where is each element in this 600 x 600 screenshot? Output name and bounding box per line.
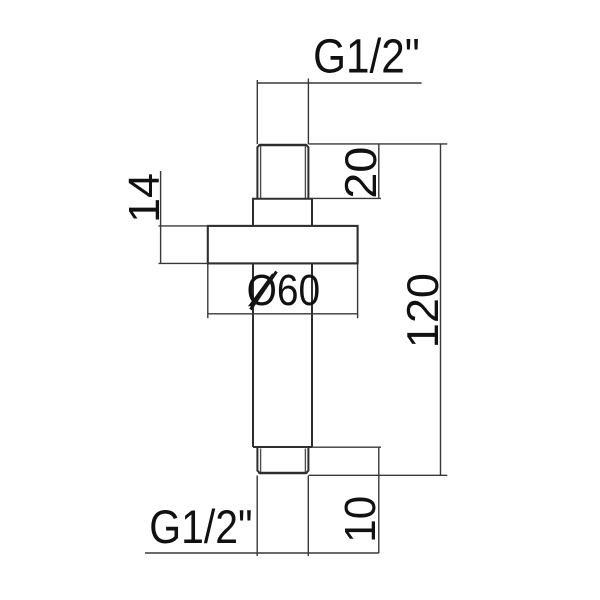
bottom thread outer profile [257,448,308,473]
pipe right edge [311,263,313,447]
dimension 10: dimension line [378,447,380,553]
collar below top thread [253,199,312,226]
pipe left edge [252,263,254,447]
dimension G1/2 bottom: left extension line [256,476,258,557]
dimension G1/2 bottom: right extension line [307,476,309,557]
dimension 20: top extension line [308,143,447,145]
svg-text:20: 20 [337,147,386,199]
svg-text:120: 120 [399,273,448,348]
dimension 20: bottom extension line [312,197,381,199]
dimension 120: dimension line [440,144,442,475]
bottom thread crest edge [258,472,307,474]
slash overshoot of diameter symbol [251,272,277,310]
dimension 10: top extension line [312,446,381,448]
bottom thread root line left [260,449,262,473]
dimension 14: dimension line [160,171,162,263]
dimension 14: bottom extension line [159,262,208,264]
flange [208,226,358,264]
dimension G1/2 top: right extension line [307,79,309,145]
svg-text:14: 14 [120,173,169,223]
dimension G1/2 top: left extension line [256,80,258,144]
dimension 120: bottom extension line [309,474,448,476]
top thread root line left [260,146,262,198]
top thread outer profile [257,145,308,199]
dimension G1/2 bottom: dimension line [145,552,379,554]
dimension 20: dimension line [378,144,380,199]
svg-text:G1/2": G1/2" [313,31,420,84]
pipe bottom edge [253,446,312,448]
dimension 14: top extension line [159,225,208,227]
dimension D60: left extension line [207,263,209,318]
dimension D60: right extension line [357,263,359,318]
svg-text:Ø60: Ø60 [247,266,321,315]
bottom thread root line right [304,449,306,473]
dimension D60: dimension line [208,313,358,315]
top thread root line right [304,146,306,198]
svg-text:G1/2": G1/2" [149,501,252,554]
svg-text:10: 10 [336,496,385,543]
dimension G1/2 top: dimension line [257,82,422,84]
top thread crest edge [258,144,307,146]
